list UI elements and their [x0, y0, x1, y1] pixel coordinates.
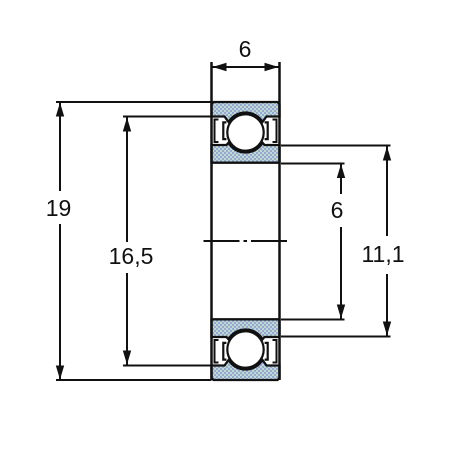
dimension d1=11,1 right	[281, 146, 405, 337]
inner ring bottom	[212, 319, 280, 339]
svg-text:6: 6	[239, 36, 252, 62]
centerline axis	[204, 240, 288, 242]
shield top-right	[273, 120, 277, 143]
outer ring bottom	[212, 360, 280, 380]
dimension d2=16,5 left	[109, 117, 211, 366]
shield top-left	[215, 120, 219, 143]
shield bottom-left	[215, 340, 219, 363]
ball bottom	[227, 331, 263, 367]
bore side line left	[210, 62, 213, 380]
bottom bearing half-section	[212, 319, 280, 380]
dimension B=6 top	[212, 36, 280, 71]
svg-text:16,5: 16,5	[109, 243, 154, 269]
dimension d=6 right	[281, 164, 345, 320]
dimension D=19 left	[46, 102, 212, 380]
svg-text:6: 6	[331, 197, 344, 223]
svg-text:11,1: 11,1	[361, 241, 404, 267]
bore side line right	[278, 62, 281, 380]
inner ring top	[212, 143, 280, 163]
ball top	[227, 114, 263, 150]
shield bottom-right	[273, 340, 277, 363]
outer ring top	[212, 102, 280, 122]
top bearing half-section	[212, 102, 280, 163]
svg-text:19: 19	[46, 195, 72, 221]
